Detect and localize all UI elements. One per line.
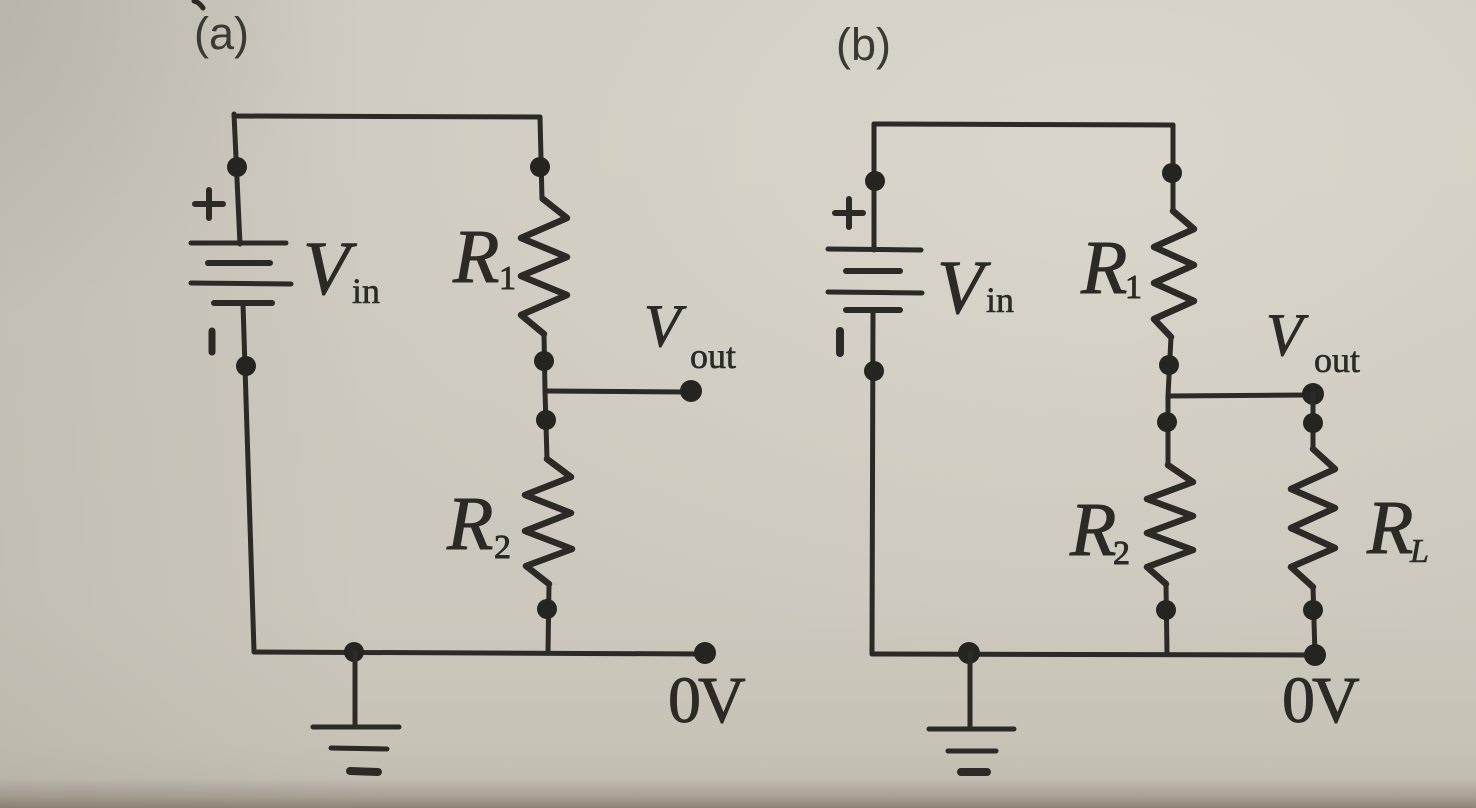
svg-text:R: R	[452, 215, 499, 299]
svg-text:V: V	[303, 227, 357, 311]
node: circuit b Vout terminal	[1302, 383, 1324, 405]
wire: circuit b R1 bottom lead	[1168, 337, 1171, 396]
resistor RL (b)	[1291, 449, 1335, 587]
node: circuit a battery - node	[236, 356, 256, 376]
svg-text:(b): (b)	[836, 19, 891, 70]
wire: circuit b RL top lead	[1311, 394, 1316, 449]
battery V_in (b) plate 4 (short)	[846, 307, 900, 313]
node: circuit b battery - node	[864, 361, 884, 381]
svg-text:V: V	[937, 246, 991, 330]
node: circuit b ground junction	[958, 642, 980, 664]
svg-text:R: R	[1366, 486, 1413, 570]
wire: circuit a top rail	[234, 116, 540, 117]
wire: circuit a left rail upper (battery + lead)	[234, 114, 240, 244]
ground (a) bar 3	[350, 771, 378, 772]
battery V_in (b) plus terminal marking	[835, 199, 863, 227]
node: circuit a ground junction	[344, 642, 364, 662]
ground (b) bar 1	[929, 727, 1014, 732]
svg-text:L: L	[1409, 533, 1429, 570]
wire: circuit a R1 bottom lead	[544, 334, 545, 391]
node: circuit b bottom of R2	[1156, 600, 1176, 620]
svg-text:1: 1	[1125, 269, 1142, 306]
wire: circuit b left rail lower (battery - lead down to 0V rail)	[872, 310, 873, 654]
battery V_in (a) plate 1 (long)	[191, 241, 286, 246]
ground (b) bar 3	[961, 768, 987, 776]
svg-text:in: in	[986, 280, 1014, 320]
node: circuit b bottom of RL	[1303, 600, 1323, 620]
battery V_in (a) plate 3 (long)	[191, 283, 291, 284]
node: circuit a bottom of R2	[537, 599, 557, 619]
svg-text:(a): (a)	[194, 8, 249, 59]
wire: circuit a left rail lower (battery - lead down to 0V rail)	[243, 304, 254, 651]
wire: circuit b bottom 0V rail	[872, 654, 1315, 655]
stray mark top edge	[194, 1, 203, 8]
node: circuit a 0V terminal	[694, 642, 716, 664]
battery V_in (b) plate 2 (short)	[846, 268, 900, 274]
node: circuit b top of R1	[1162, 163, 1182, 183]
node: circuit b battery + node	[865, 171, 885, 191]
ground (a) stem	[353, 652, 358, 727]
svg-text:0V: 0V	[668, 664, 745, 737]
ground (a) bar 2	[331, 748, 387, 749]
wire: circuit b top rail	[874, 124, 1173, 125]
ground (b) bar 2	[948, 749, 996, 754]
wire: circuit b R1 top lead	[1171, 125, 1176, 211]
node: circuit b divider node lower dot	[1157, 412, 1177, 432]
battery V_in (a) minus terminal marking	[209, 331, 216, 352]
svg-text:2: 2	[1113, 535, 1130, 572]
battery V_in (a) plate 4 (short)	[214, 300, 272, 306]
battery V_in (a) plus terminal marking	[195, 190, 223, 218]
svg-text:1: 1	[499, 260, 516, 297]
wire: circuit a R2 bottom lead	[548, 584, 549, 652]
battery V_in (b) minus terminal marking	[836, 331, 844, 353]
svg-text:out: out	[690, 336, 736, 376]
svg-text:V: V	[644, 293, 687, 359]
resistor R1 (b)	[1154, 211, 1194, 337]
wire: circuit a bottom 0V rail	[254, 652, 704, 654]
node: circuit a Vout terminal	[680, 380, 702, 402]
ground (a) bar 1	[313, 725, 399, 730]
wire: circuit a R1 top lead	[540, 117, 542, 199]
node: circuit a divider node upper dot	[534, 351, 554, 371]
svg-text:in: in	[352, 271, 380, 311]
node: circuit a battery + node	[227, 157, 247, 177]
wire: circuit a between divider node and R2	[545, 391, 547, 459]
resistor R1 (a)	[521, 199, 567, 334]
node: circuit a top of R1	[530, 157, 550, 177]
svg-text:R: R	[1080, 226, 1127, 310]
wire: circuit b R2 bottom lead	[1166, 584, 1167, 653]
svg-text:0V: 0V	[1282, 664, 1359, 737]
resistor R2 (a)	[525, 459, 572, 584]
wire: circuit b left rail upper (battery + lead)	[872, 124, 877, 250]
svg-text:2: 2	[494, 529, 511, 566]
svg-text:out: out	[1314, 340, 1360, 380]
wire: circuit b RL bottom lead	[1313, 587, 1315, 655]
node: circuit b 0V terminal	[1304, 644, 1326, 666]
battery V_in (a) plate 2 (short)	[208, 260, 270, 266]
wire: circuit a Vout tap	[545, 391, 688, 392]
battery V_in (b) plate 3 (long)	[828, 292, 922, 293]
ground (b) stem	[968, 653, 973, 728]
node: circuit a divider node lower dot	[536, 410, 556, 430]
svg-text:R: R	[1069, 488, 1116, 572]
wire: circuit b between divider node and R2	[1166, 396, 1171, 465]
svg-text:R: R	[446, 482, 493, 566]
battery V_in (b) plate 1 (long)	[828, 249, 921, 250]
resistor R2 (b)	[1147, 465, 1193, 584]
svg-text:V: V	[1266, 302, 1309, 368]
node: circuit b top of RL	[1303, 413, 1323, 433]
wire: circuit b Vout tap	[1168, 395, 1311, 396]
node: circuit b R1 bottom dot	[1159, 355, 1179, 375]
